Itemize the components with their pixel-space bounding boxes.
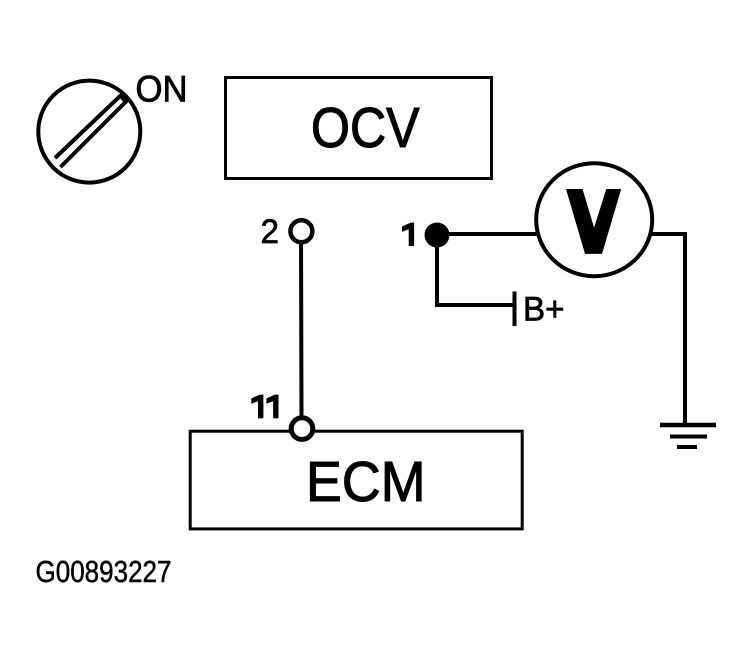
voltmeter V [536,163,652,276]
wire from voltmeter to right corner [594,232,687,236]
wire from node 1 down [435,235,439,307]
OCV box [226,78,492,179]
node 1 junction (filled dot) [425,223,450,248]
svg-text:OCV: OCV [311,96,420,159]
node 2 terminal (open circle) [290,220,312,242]
svg-text:ECM: ECM [306,450,426,513]
wire from node 1 to voltmeter [437,232,594,236]
label 1 [402,223,414,246]
wire down to ground [683,232,687,424]
svg-text:2: 2 [261,213,280,251]
wire to battery terminal [437,303,513,307]
ignition switch (key symbol) [38,81,140,183]
battery terminal bar B+ [513,292,517,327]
node 11 terminal (open circle on ECM) [291,418,313,440]
ground symbol [660,425,716,447]
svg-text:B+: B+ [523,291,565,329]
wire from node 2 down to node 11 [299,233,304,422]
ECM box [190,431,522,529]
label 11 [251,395,278,419]
svg-text:ON: ON [136,69,188,110]
svg-text:G00893227: G00893227 [36,554,172,589]
